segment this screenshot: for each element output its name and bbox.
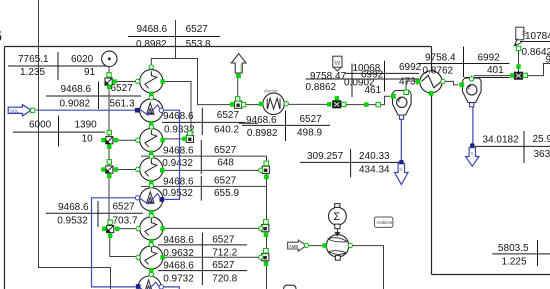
HX1 top port <box>149 65 153 69</box>
svg-text:7765.1: 7765.1 <box>18 54 49 65</box>
svg-text:0.9432: 0.9432 <box>162 158 193 169</box>
product stream arrow B2 (blue down arrow) <box>466 148 479 167</box>
feed stream arrow AMB <box>288 240 307 251</box>
wire: HX1 right to check valve CV2 <box>163 82 191 136</box>
svg-text:1.225: 1.225 <box>502 256 527 267</box>
wire: letdown valve column vertical <box>266 173 268 289</box>
wire: valve manifold vertical <box>109 85 136 256</box>
flash F2 ports <box>459 77 473 107</box>
table: stream data duty-34 <box>475 131 550 163</box>
svg-text:34.0182: 34.0182 <box>483 135 520 146</box>
svg-text:91: 91 <box>84 67 96 78</box>
svg-text:6527: 6527 <box>212 235 235 246</box>
valve LV3 anchors <box>259 249 269 267</box>
work stream W1 <box>333 56 342 71</box>
wire: work stream W2 to valve X2 <box>518 51 520 73</box>
vent arrow CM3 anchor <box>236 74 241 79</box>
svg-text:498.9: 498.9 <box>297 128 322 139</box>
fan anchors <box>322 243 352 247</box>
stream B2 junction dot <box>470 143 475 148</box>
svg-text:electric: electric <box>264 89 279 94</box>
svg-text:6527: 6527 <box>212 260 235 271</box>
valve V4 anchors <box>102 220 119 238</box>
valve V1 <box>105 78 112 85</box>
svg-text:6992: 6992 <box>478 53 501 64</box>
table: stream data hx5-out <box>158 260 247 284</box>
wire: HX5 right outlet to valve LV3 <box>163 256 259 258</box>
table: stream data 9468-sol <box>46 82 141 110</box>
table: stream data 7765 <box>8 52 107 80</box>
wire: fan outlet going down <box>350 246 383 289</box>
svg-text:Ambient: Ambient <box>377 220 394 225</box>
svg-text:0.8862: 0.8862 <box>306 82 337 93</box>
wire: main flowsheet boundary box <box>5 47 432 289</box>
valve V1 anchors <box>107 73 117 89</box>
svg-text:9468.6: 9468.6 <box>163 176 194 187</box>
wire: HX2 table line to letdown valve LV1 <box>141 156 267 166</box>
svg-text:6527: 6527 <box>214 176 237 187</box>
multiplier symbol above valve V1 <box>102 51 117 66</box>
svg-text:9468.6: 9468.6 <box>163 111 194 122</box>
svg-text:10784: 10784 <box>525 31 550 42</box>
flash drum F1 <box>393 91 412 116</box>
wire: long vertical feed line at left <box>39 0 111 289</box>
svg-text:W: W <box>335 61 341 67</box>
valve CV2 anchors <box>182 131 192 141</box>
svg-text:1390: 1390 <box>75 120 98 131</box>
wire: SOL feed stream (blue) <box>36 109 135 111</box>
svg-text:0.9082: 0.9082 <box>60 99 91 110</box>
svg-text:6000: 6000 <box>29 120 52 131</box>
svg-text:0.8982: 0.8982 <box>247 128 278 139</box>
svg-text:0.8762: 0.8762 <box>423 65 454 76</box>
table: stream data hx1-out <box>162 108 246 136</box>
svg-text:6992: 6992 <box>399 62 422 73</box>
mixer X2 anchors <box>510 64 527 77</box>
svg-text:Σ: Σ <box>333 211 340 223</box>
HX right-side ports <box>160 79 165 259</box>
junction anchors on X1 outlet <box>364 102 380 106</box>
table: stream data hx2-out <box>162 140 236 174</box>
svg-text:553.8: 553.8 <box>186 39 211 50</box>
valve V2 <box>106 137 113 144</box>
wire: HX3 right outlet <box>163 169 259 171</box>
table: stream data mix2-in <box>46 201 143 227</box>
svg-text:CM3: CM3 <box>239 64 244 73</box>
svg-text:5803.5: 5803.5 <box>498 243 529 254</box>
svg-text:640.2: 640.2 <box>214 125 239 136</box>
mixer blue ports <box>135 108 164 289</box>
valve LV2 anchors <box>259 220 269 238</box>
electric heater anchors <box>259 102 289 107</box>
valve V4 <box>107 226 114 233</box>
svg-text:9758.47: 9758.47 <box>310 71 347 82</box>
stream B1 junction dot <box>399 160 404 165</box>
table: stream data 10784 <box>520 31 550 58</box>
wire: HX3 table line across <box>141 185 267 187</box>
HX left-side ports <box>135 79 140 259</box>
valve V3 anchors <box>101 160 118 179</box>
svg-text:6: 6 <box>0 27 2 46</box>
wire: HX4 right outlet to valve LV2 <box>163 227 259 229</box>
svg-text:9468.6: 9468.6 <box>246 115 277 126</box>
wire: HX1 top bypass loop to relief valve <box>151 59 231 105</box>
svg-text:561.3: 561.3 <box>110 99 135 110</box>
work stream W2 anchor <box>516 46 521 51</box>
wire: valve V1 to HX1 <box>117 81 136 83</box>
feed stream arrow SOL (blue) <box>8 105 31 116</box>
svg-text:25.9: 25.9 <box>533 134 550 145</box>
wire: AMB feed to fan <box>309 245 323 247</box>
work stream W2 <box>514 27 526 46</box>
mixer block X1 (X symbol) <box>333 101 341 108</box>
svg-text:9468.6: 9468.6 <box>163 261 194 272</box>
wire: valve V3 to HX3 <box>117 169 136 171</box>
svg-text:0.9732: 0.9732 <box>163 273 194 284</box>
valve LV1 anchors <box>259 161 269 179</box>
svg-text:6527: 6527 <box>300 114 323 125</box>
svg-text:401: 401 <box>487 65 504 76</box>
valve RV1 <box>235 101 242 108</box>
heat exchanger E4 <box>140 217 163 240</box>
svg-text:240.33: 240.33 <box>359 151 390 162</box>
wire: right section boundary <box>432 47 550 275</box>
mixer X1 anchors <box>327 96 346 107</box>
svg-text:309.257: 309.257 <box>307 151 344 162</box>
sigma motor symbol <box>329 204 347 229</box>
svg-text:703.7: 703.7 <box>113 215 138 226</box>
flash drum F2 <box>463 78 482 103</box>
mixer M1 <box>140 99 163 122</box>
mixer block X2 (X symbol) <box>514 72 522 79</box>
wire: valve V2 to HX2 <box>117 139 136 141</box>
valve CV2 <box>186 135 193 142</box>
mixer M3 <box>138 276 161 289</box>
svg-text:10: 10 <box>82 134 94 145</box>
compressor anchors <box>416 79 445 95</box>
table: stream data 9758-right <box>418 47 510 78</box>
svg-text:0.9532: 0.9532 <box>162 188 193 199</box>
heat exchanger E5 <box>140 246 163 269</box>
mixer M2 <box>140 188 163 211</box>
wire: valve V4 to HX4 <box>118 228 136 230</box>
AMB anchor <box>304 243 308 247</box>
svg-text:6527: 6527 <box>217 110 240 121</box>
svg-text:9468.6: 9468.6 <box>163 146 194 157</box>
compressor C1 <box>420 71 442 93</box>
wire: vent arrow CM3 line <box>237 78 239 97</box>
SOL anchor <box>31 108 35 112</box>
table: stream data 6000-feed <box>13 116 105 147</box>
heat exchanger E2 <box>140 128 163 151</box>
flash F1 ports <box>391 90 409 119</box>
wire: flash F2 liquid outlet (blue) <box>472 107 474 144</box>
fan blower FAN1 <box>326 232 348 260</box>
svg-text:6527: 6527 <box>186 24 209 35</box>
svg-text:9468.6: 9468.6 <box>137 24 168 35</box>
table: stream data hx3-out <box>162 176 239 201</box>
svg-text:655.9: 655.9 <box>214 188 239 199</box>
wire: mixer M1 outlet loop to mixer M2 (blue) <box>164 110 180 199</box>
svg-text:S: S <box>399 167 402 172</box>
partial flash drum at bottom edge <box>284 285 296 289</box>
svg-text:363: 363 <box>534 149 550 160</box>
svg-text:648: 648 <box>217 158 234 169</box>
table: stream data 9758-left <box>306 61 425 97</box>
valve V3 <box>106 166 113 173</box>
svg-text:0.8982: 0.8982 <box>136 39 167 50</box>
svg-text:9468.6: 9468.6 <box>58 202 89 213</box>
heat exchanger E3 <box>140 158 163 181</box>
svg-text:6527: 6527 <box>111 83 134 94</box>
svg-text:6527: 6527 <box>113 202 136 213</box>
valve LV1 <box>262 166 269 173</box>
wire: flash F2 vapor to valve X2 <box>472 76 514 78</box>
wire: multiplier to valve V1 <box>108 66 110 73</box>
product stream arrow B1 (blue down arrow) <box>395 164 408 185</box>
svg-text:6527: 6527 <box>214 145 237 156</box>
svg-text:9468.6: 9468.6 <box>163 235 194 246</box>
svg-text:1.235: 1.235 <box>20 67 45 78</box>
wire: mixer M2 outlet to mixer M3 (blue) <box>92 198 136 287</box>
wire: mixer X1 to flash vessel F1 <box>343 96 391 104</box>
heat exchanger E1 <box>140 70 163 93</box>
valve LV2 <box>262 225 269 232</box>
wire: relief valve to electric heater <box>246 104 260 106</box>
svg-text:0.9532: 0.9532 <box>57 215 88 226</box>
svg-text:6020: 6020 <box>71 54 94 65</box>
wire: valve X2 outlet stepping to right edge <box>523 64 550 76</box>
svg-text:AMB: AMB <box>289 244 299 249</box>
wire: electric heater to mixer X1 <box>288 103 331 105</box>
table: stream data duty-309 <box>300 149 402 178</box>
svg-text:9468.6: 9468.6 <box>61 84 92 95</box>
valve RV1 anchors <box>230 97 246 107</box>
svg-text:461: 461 <box>365 85 382 96</box>
table: stream data hx4-out <box>158 233 247 286</box>
svg-text:9758.4: 9758.4 <box>425 53 456 64</box>
junction anchors on exchanger column <box>149 92 153 277</box>
table: stream data 9468-top <box>128 24 220 50</box>
wire: mixer M3 outlet (blue) <box>164 287 180 289</box>
wire: flash F1 vapor to compressor <box>406 81 417 91</box>
svg-text:S: S <box>470 151 473 156</box>
table: stream data amb-5803 <box>492 240 550 267</box>
wire: sigma motor to fan <box>336 229 338 233</box>
svg-text:SOL: SOL <box>10 109 20 114</box>
vent arrow CM3 (up arrow) <box>231 54 246 74</box>
wire: T2 divider continuation <box>175 20 177 59</box>
valve LV3 <box>262 254 269 261</box>
electric heater EH1 <box>263 89 284 115</box>
svg-text:434.34: 434.34 <box>359 164 390 175</box>
label box Ambient <box>375 217 394 227</box>
svg-text:W: W <box>520 31 526 37</box>
valve V2 anchors <box>101 130 118 149</box>
wire: flash F1 liquid outlet (blue) <box>400 119 402 159</box>
wire: compressor outlet to flash F2 <box>445 81 458 85</box>
wire: check valve CV2 to HX2 right <box>164 138 183 140</box>
table: stream data heater-out <box>239 111 330 142</box>
svg-text:720.8: 720.8 <box>212 273 237 284</box>
